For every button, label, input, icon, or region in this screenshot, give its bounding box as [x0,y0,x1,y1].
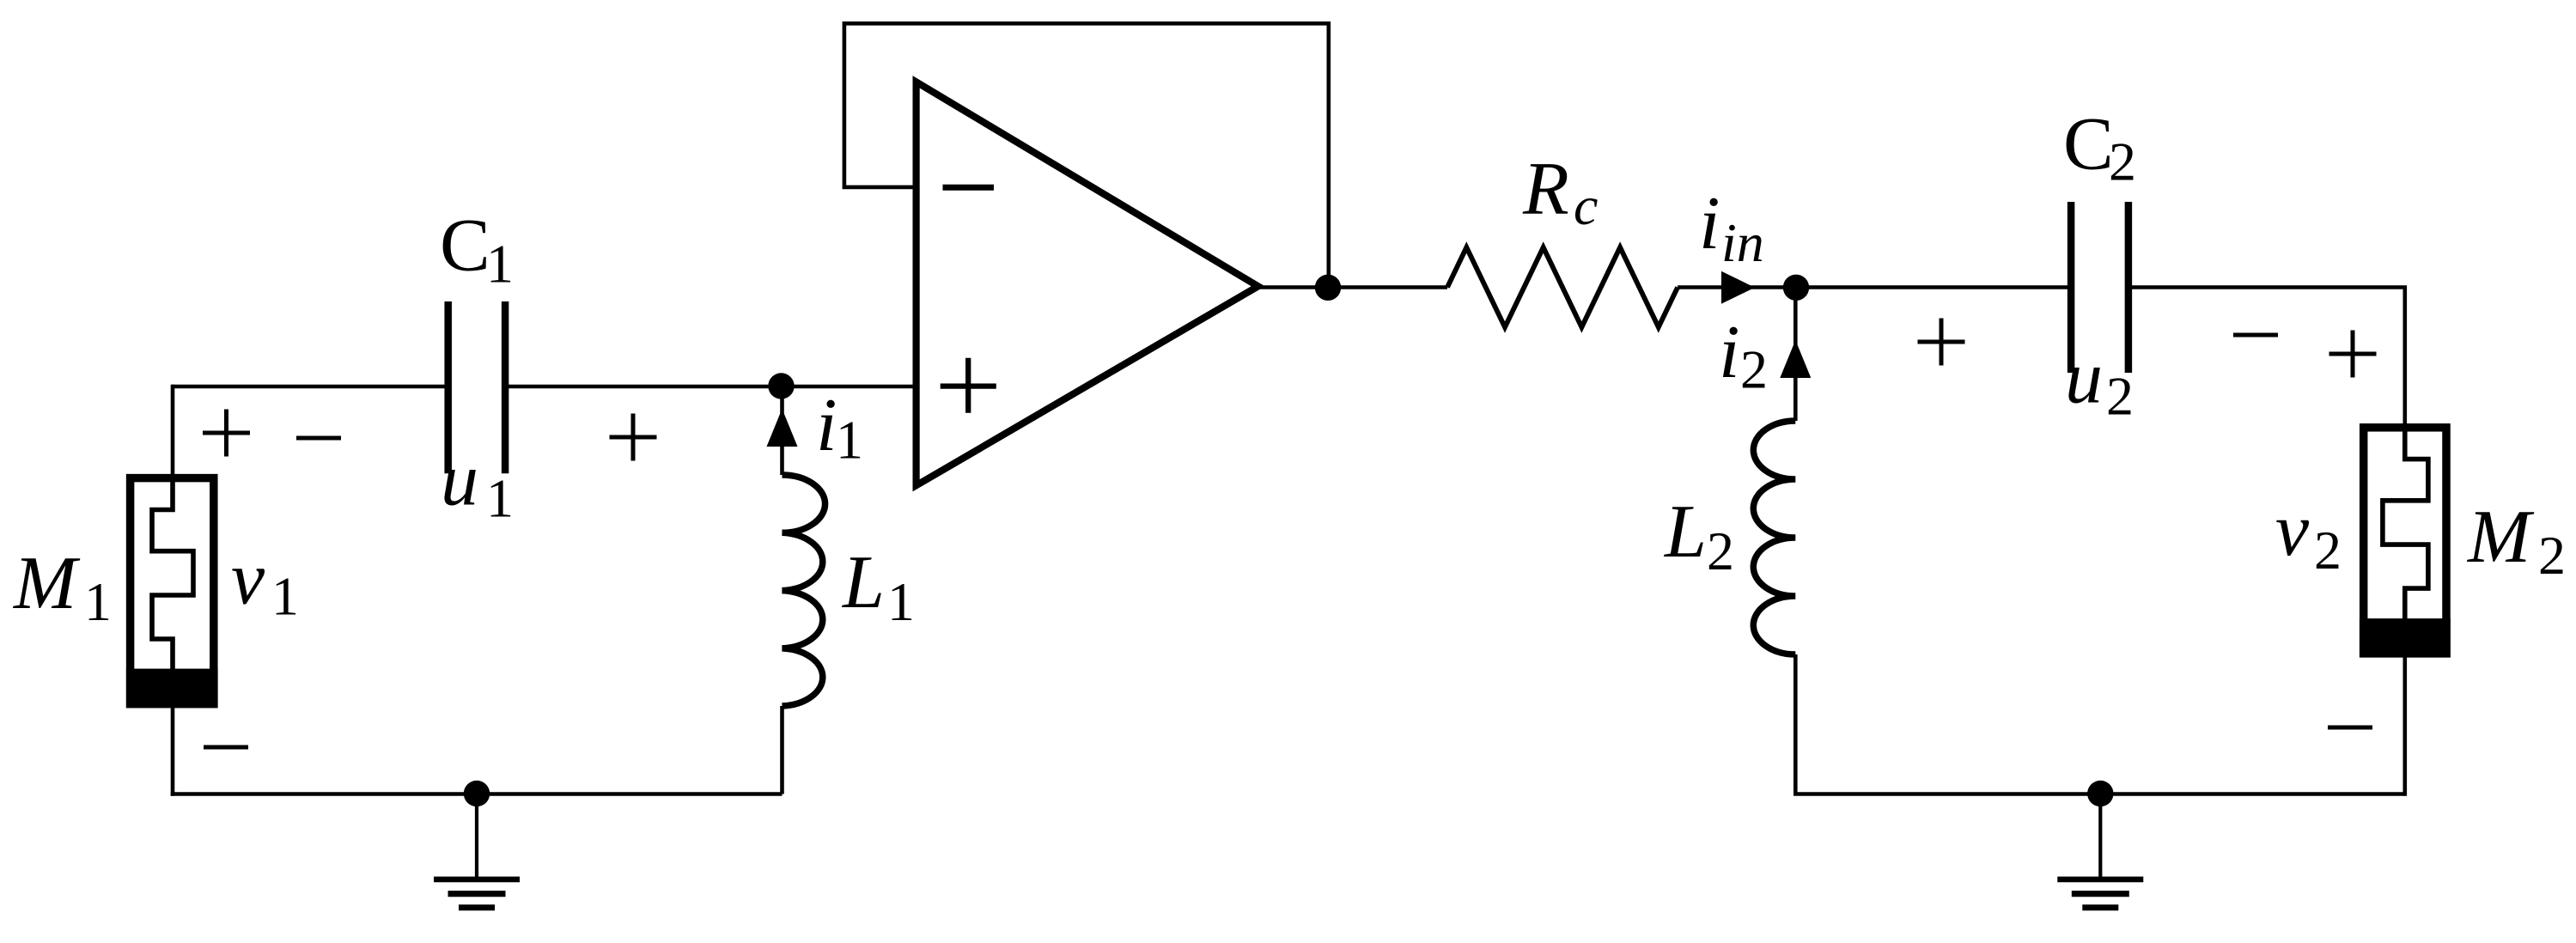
svg-text:c: c [1574,175,1598,236]
svg-text:C: C [440,204,490,288]
polarity + of v2 [2329,331,2377,378]
svg-text:1: 1 [836,410,863,471]
wire: feedback loop from output to - input [844,23,1329,288]
op-amp U1 [917,82,1258,485]
polarity + of u1 [610,414,657,461]
svg-text:1: 1 [486,234,514,295]
node: junction dot at op-amp output [1315,275,1341,301]
svg-text:2: 2 [2109,131,2136,192]
resistor Rc [1447,247,1678,327]
wire: C2 right plate to corner and down to M2 [2128,285,2405,427]
polarity - of u2 [2233,333,2278,338]
label u1 [441,439,514,529]
polarity + of u2 [1918,319,1965,366]
wire: op-amp output to resistor [1256,285,1447,289]
wire: node B to C2 left plate [1796,285,2071,289]
svg-text:L: L [1663,490,1707,574]
svg-text:i: i [1719,311,1739,394]
polarity - of v1 [204,745,248,750]
label i1 [816,384,863,471]
inductor L1 [783,475,825,706]
current arrow i2 [1780,340,1811,378]
memristor M1 [126,478,218,708]
svg-text:2: 2 [2538,525,2566,586]
svg-text:2: 2 [1707,520,1734,581]
svg-text:1: 1 [271,565,299,626]
label v1 [231,538,299,627]
wire: M1 top lead [171,385,175,478]
polarity - of v2 [2328,726,2372,730]
current arrow i1 [767,409,798,447]
svg-text:M: M [2466,496,2535,579]
label Rc [1522,148,1598,236]
polarity - of u1 [296,436,341,441]
svg-text:2: 2 [2314,520,2342,581]
label L1 [841,541,915,632]
wire: M1 bottom lead [171,704,175,796]
wire: M2 bottom lead [2403,654,2408,796]
wire: L1 bottom lead [780,706,784,794]
label M2 [2466,496,2566,586]
capacitor C1 [448,301,505,473]
wire: L2 bottom lead [1793,654,2405,796]
svg-text:1: 1 [486,468,514,529]
svg-text:1: 1 [887,571,915,632]
ground (left) [434,781,520,908]
label C2 [2063,103,2136,192]
label L2 [1663,490,1734,581]
wire: left top rail from M1 corner to C1 left plate [173,385,448,389]
label C1 [440,204,514,295]
current arrow i_in [1721,271,1755,304]
node: junction dot B [1783,275,1809,301]
wire: left top rail from C1 right plate to op-amp + input [505,385,917,389]
polarity + of v1 [203,410,250,457]
svg-text:v: v [231,538,265,621]
svg-text:v: v [2275,489,2310,572]
wire: i2 branch from node B down to L2 [1793,288,1798,421]
label u2 [2065,337,2134,427]
svg-text:i: i [816,384,837,467]
svg-text:M: M [12,542,81,625]
label M1 [12,542,112,632]
svg-text:i: i [1699,182,1720,265]
node: junction dot at C1/L1/op-amp input [768,373,794,398]
memristor M2 [2360,427,2451,658]
svg-text:2: 2 [1740,338,1768,399]
wire: resistor to node B [1678,285,1796,289]
inductor L2 [1753,421,1795,654]
capacitor C2 [2071,202,2128,373]
svg-text:u: u [441,439,478,522]
svg-text:u: u [2065,337,2103,420]
svg-text:L: L [841,541,885,624]
svg-text:in: in [1721,212,1764,273]
svg-text:C: C [2063,103,2114,186]
label v2 [2275,489,2342,581]
svg-text:R: R [1522,148,1569,231]
svg-text:1: 1 [84,571,112,632]
label i2 [1719,311,1768,399]
wire: L1 top lead with i1 branch [780,386,784,476]
wire: left bottom rail [171,792,783,796]
label i_in [1699,182,1764,273]
ground (right) [2057,781,2143,908]
svg-text:2: 2 [2106,366,2134,427]
